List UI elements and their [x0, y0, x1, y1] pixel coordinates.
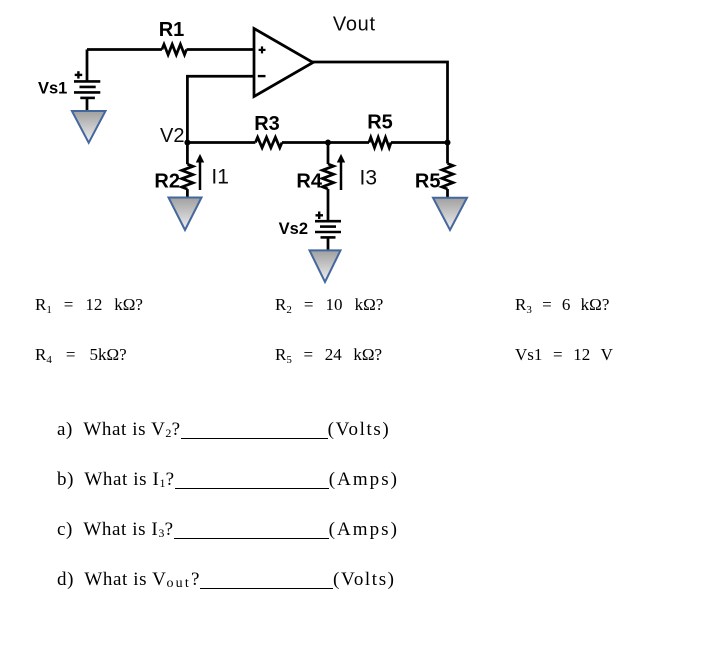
voltage source Vs1 (battery)	[74, 81, 100, 98]
wire: R1 to op-amp non-inverting input	[187, 48, 255, 51]
value label R5	[275, 345, 382, 365]
wire: op-amp output to right vertical drop	[312, 62, 448, 143]
svg-text:Vs1: Vs1	[38, 80, 67, 98]
wire: Vs1 top to R1 (left segment of + input wire)	[87, 48, 162, 51]
svg-text:I3: I3	[360, 166, 378, 189]
resistor R5 (horizontal)	[369, 137, 391, 147]
value label R1	[35, 295, 143, 315]
op-amp U1	[254, 29, 313, 97]
voltage source Vs2 (battery)	[315, 221, 341, 237]
question b	[57, 469, 399, 491]
resistor R1	[162, 44, 187, 54]
svg-text:Vout: Vout	[333, 13, 376, 35]
value label Vs1	[515, 345, 613, 365]
svg-text:R3: R3	[254, 113, 280, 135]
resistor R2	[182, 164, 193, 189]
plus sign of Vs2	[316, 212, 324, 220]
wire: R3 to center node	[282, 141, 369, 144]
wire: V2 to R2	[186, 143, 189, 165]
ground (R5)	[433, 198, 467, 230]
wire: Vs2 to ground	[327, 237, 330, 250]
question a	[57, 419, 390, 441]
node right (output node)	[445, 140, 451, 146]
current arrow I3	[337, 154, 345, 190]
svg-text:Vs2: Vs2	[279, 220, 308, 238]
pin - (inverting)	[258, 75, 266, 77]
wire: Vs1 to ground	[86, 98, 89, 112]
wire: Vs1 vertical lead	[86, 50, 89, 82]
value label R3	[515, 295, 609, 315]
svg-text:V2: V2	[160, 125, 184, 147]
resistor R3	[255, 137, 282, 147]
pin + (non-inverting)	[259, 46, 266, 53]
resistor R4	[322, 164, 333, 189]
wire: inverting input to node V2	[187, 76, 254, 142]
value label R2	[275, 295, 383, 315]
node V2	[184, 140, 190, 146]
svg-text:I1: I1	[211, 165, 229, 188]
svg-text:R5: R5	[415, 171, 441, 193]
ground (Vs1)	[72, 111, 106, 143]
wire: R5 vertical to ground	[446, 189, 449, 198]
node center (R4 junction)	[325, 140, 331, 146]
question c	[57, 519, 399, 541]
current arrow I1	[196, 154, 204, 190]
wire: R2 to ground	[186, 189, 189, 198]
ground (R2)	[169, 198, 202, 231]
wire: right node to R5 vertical	[446, 143, 449, 164]
question d	[57, 569, 396, 591]
wire: R5 to right node	[391, 141, 448, 144]
svg-text:R4: R4	[296, 171, 322, 193]
wire: V2 to R3	[187, 141, 255, 144]
wire: center node to R4	[327, 143, 330, 165]
plus sign of Vs1	[75, 71, 83, 78]
ground (Vs2)	[310, 250, 341, 282]
resistor R5 (vertical)	[442, 164, 453, 190]
wire: R4 to Vs2	[327, 189, 330, 221]
svg-text:R5: R5	[367, 112, 393, 134]
value label R4	[35, 345, 127, 365]
svg-text:R1: R1	[159, 19, 185, 41]
svg-text:R2: R2	[154, 171, 180, 193]
